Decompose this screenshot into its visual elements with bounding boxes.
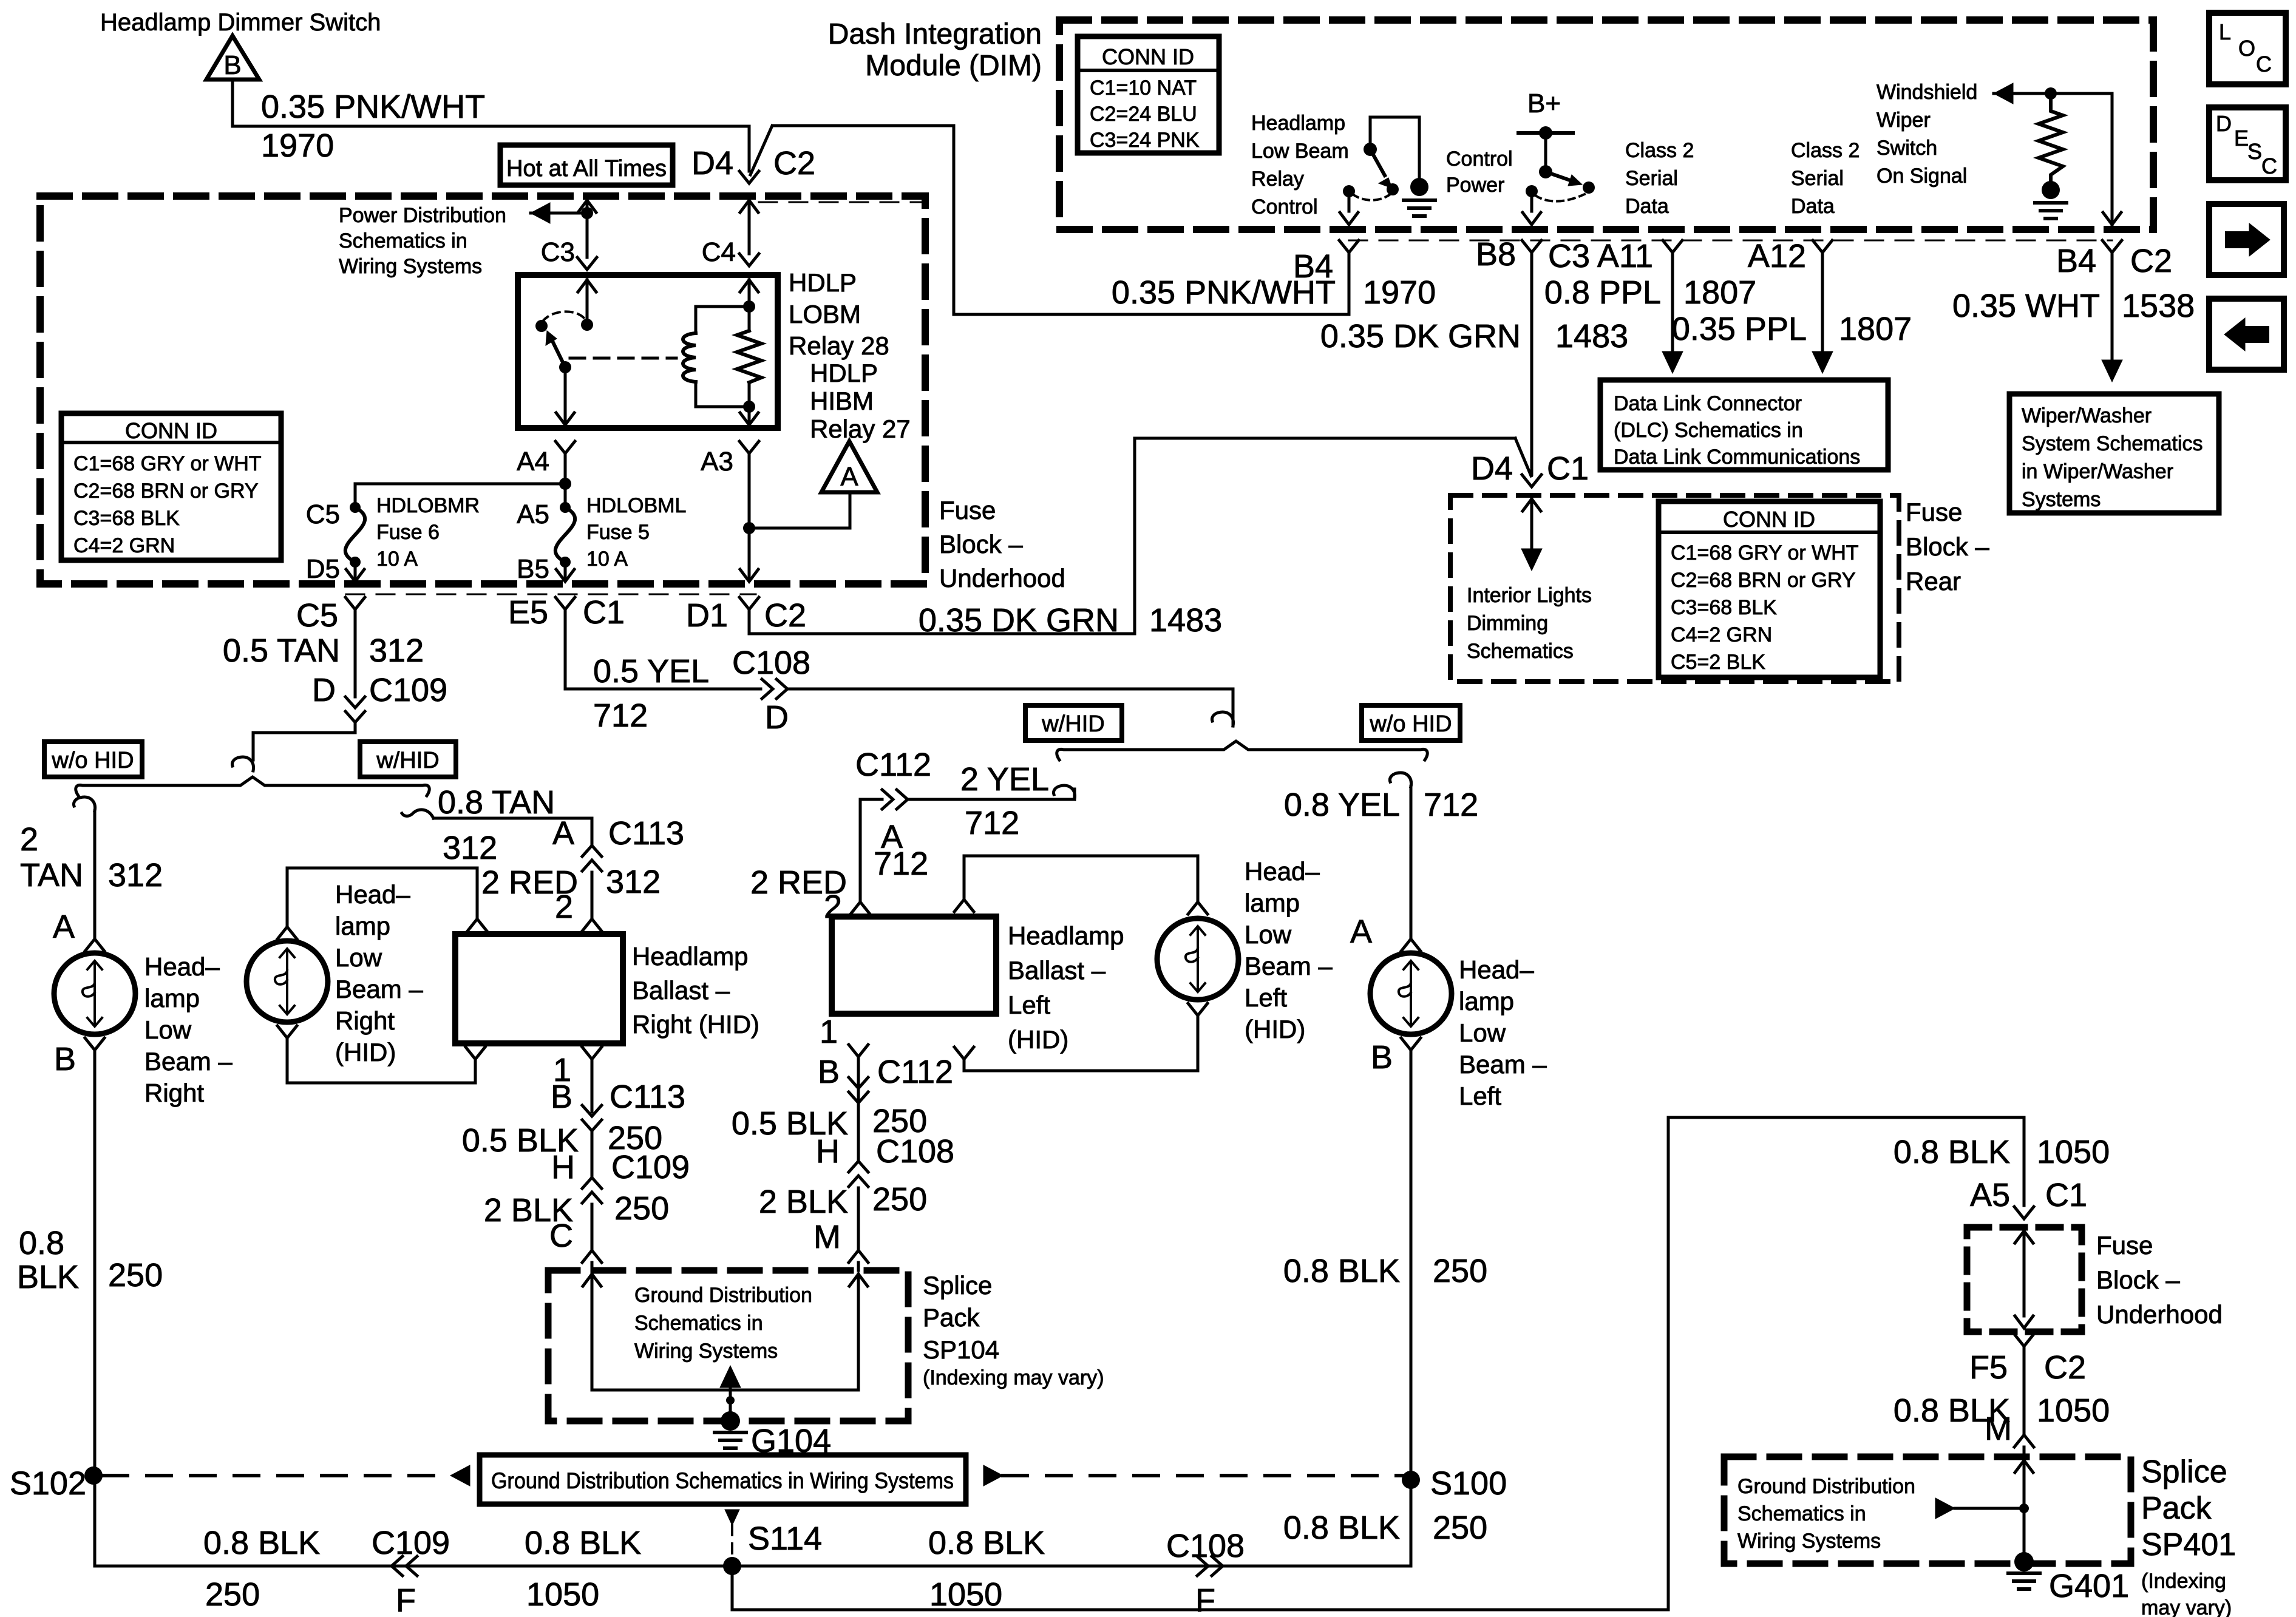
pin arrow B5 to fuse block edge [556,569,574,581]
svg-text:E: E [2234,126,2249,151]
svg-text:F5: F5 [1969,1349,2008,1386]
svg-text:CONN ID: CONN ID [1102,44,1194,69]
connector fork A11 [1663,240,1682,253]
dot right contact relay control [1387,183,1399,195]
svg-text:C108: C108 [732,645,810,681]
DIM control power switch arm [1546,172,1574,181]
wire top to right [773,124,954,127]
wire D1 down [748,609,751,634]
svg-text:C109: C109 [372,1525,450,1561]
wire 0.8 BLK top run [1668,1116,2024,1119]
wire 0.8 PPL [1671,253,1674,364]
wire HID left lamp top loop [964,855,1198,858]
svg-text:C1: C1 [583,594,625,631]
svg-text:0.35 DK GRN: 0.35 DK GRN [1320,318,1521,354]
wire A5 drop [564,484,567,503]
thin dashed connector row top [759,202,925,203]
pin fork into right ballast pin2 [582,919,602,931]
wire HID right lamp bottom loop [287,1082,475,1085]
wire C3 feed [586,200,589,257]
connector chevron C108 up [849,1161,868,1172]
box w/HID left [360,742,456,777]
svg-text:1538: 1538 [2122,288,2195,324]
connector fork A12 [1813,240,1832,253]
ground DIM internal [1404,198,1435,202]
pin fork ballast right top-left [467,919,487,931]
connector fork A4 [555,441,575,453]
wire riser to fuse block underhood [1667,1117,1670,1610]
box CONN ID rear [1659,501,1880,677]
pin arrow into underhood box [2015,1231,2033,1243]
squiggle resume right split feed [1212,712,1233,726]
relay switch fixed contact right [581,319,593,331]
pin fork into left ballast pin2 [851,902,870,914]
svg-text:B5: B5 [517,554,549,584]
svg-text:w/o HID: w/o HID [1369,711,1452,737]
svg-text:C1: C1 [2045,1177,2087,1213]
wire 0.5 BLK [591,1131,594,1178]
wire 2 BLK left [857,1188,860,1249]
svg-text:Ground Distribution Schematics: Ground Distribution Schematics in Wiring… [491,1468,954,1493]
svg-text:A5: A5 [517,500,549,529]
pin arrow out of underhood box [2015,1316,2033,1328]
pin arrow M inside SP401 [2015,1460,2033,1473]
box Ground Distribution Schematics in Wiring Systems [480,1455,966,1504]
connector fork C4 [739,254,759,266]
connector slash D4/C1 rear [1515,438,1531,476]
connector fork C5 (fuse block bottom) [345,597,365,609]
ground wiper internal [2035,201,2067,205]
arrow windshield wiper [1994,83,2013,104]
connector chevron C113 [582,846,602,856]
pin fork into left lamp A [1401,939,1421,951]
svg-text:L: L [2219,19,2231,44]
svg-text:312: 312 [369,632,424,669]
svg-text:C2: C2 [2130,243,2172,279]
splice/ground dot G401 [2014,1552,2034,1571]
relay switch pivot [559,361,571,373]
svg-text:1807: 1807 [1683,274,1756,311]
svg-text:B: B [223,50,241,80]
svg-text:C2: C2 [2044,1349,2086,1386]
wire wiper signal top [1994,92,2112,95]
svg-text:250: 250 [1433,1510,1487,1546]
dashed box Dash Integration Module [1059,20,2153,229]
svg-text:H: H [816,1133,840,1170]
svg-text:G401: G401 [2049,1568,2129,1604]
box Data Link Connector [1600,380,1888,470]
triangle flag B (dimmer switch) [206,36,259,80]
svg-text:D: D [765,699,789,736]
svg-text:B+: B+ [1527,89,1561,118]
stem HIBM flag [849,492,852,528]
box right arrow [2209,204,2284,275]
pin arrow into fuse block rear [1523,499,1541,511]
relay coil junction bottom [743,401,755,413]
svg-text:w/HID: w/HID [376,748,439,773]
stub to G104 [729,1390,732,1418]
svg-text:1050: 1050 [929,1576,1002,1613]
wire HID left lamp bottom loop [964,1070,1198,1073]
svg-text:250: 250 [205,1576,260,1613]
svg-text:C5: C5 [296,597,338,634]
connector chevron C109 bus [392,1556,402,1576]
svg-text:C108: C108 [1166,1528,1245,1564]
svg-text:D4: D4 [691,145,733,181]
wire 2 YEL run [908,789,1075,799]
svg-text:B: B [818,1054,840,1090]
connector fork ballast left pin1 [849,1045,868,1057]
pin arrow D1 to fuse block edge [740,569,758,581]
connector fork A5/C1 [2014,1207,2034,1219]
svg-text:C5: C5 [306,500,340,529]
wire 0.5 YEL down [564,609,567,689]
svg-text:BLK: BLK [17,1259,79,1295]
squiggle resume 0.8 YEL branch [1390,773,1411,787]
connector fork D4 [739,171,759,183]
wire ground bus 0.8 BLK [95,1565,1411,1568]
svg-text:1: 1 [820,1014,838,1050]
splice S102 [84,1466,103,1485]
dot DIM internal ground [1410,178,1428,196]
split brace left [76,777,429,796]
connector chevron C113 bottom [582,1120,602,1131]
svg-text:1050: 1050 [2037,1392,2110,1429]
relay resistor [737,331,761,382]
fuse HDLOBMR Fuse 6 [350,502,361,513]
triangle flag A (HDLP HIBM Relay 27) [821,441,877,492]
svg-text:1970: 1970 [1363,274,1436,311]
wire 0.5 YEL to split [787,688,1233,691]
svg-text:A3: A3 [701,447,733,476]
splice bus SP104 [592,1389,858,1392]
svg-text:250: 250 [614,1190,669,1227]
relay pin arrow C4 inside [740,280,758,292]
wire C112 to ballast corner [860,798,882,801]
arrow interior lights dimming [1521,549,1542,571]
connector fork ballast left bottom-right [954,1047,974,1059]
svg-text:C108: C108 [876,1133,954,1170]
wire 0.8 TAN run [433,817,592,820]
wire ground bus to SP401 [732,1609,1668,1612]
svg-text:0.8 BLK: 0.8 BLK [1283,1253,1400,1289]
pin fork ballast left top-right [954,900,974,912]
svg-text:H: H [551,1149,575,1185]
svg-text:B8: B8 [1476,236,1516,273]
wire C109 down [354,722,357,733]
wire 0.8 BLK A5 drop [2023,1117,2026,1205]
lamp Headlamp Low Beam - Left (HID) [1157,918,1238,1000]
pin fork into right lamp A [85,939,104,951]
svg-text:0.8 BLK: 0.8 BLK [525,1525,641,1561]
connector chevron C112 [897,790,908,809]
svg-text:1483: 1483 [1555,318,1628,354]
stub SP401 [1955,1507,2024,1510]
arrow banner to S114 [725,1510,739,1525]
arrow other grounds SP401 [1935,1498,1955,1519]
wire 0.8 BLK F5 [2023,1346,2026,1434]
wire into D4 [748,126,751,171]
svg-text:C3: C3 [1548,238,1590,274]
arrow into DLC box (A12) [1812,351,1833,373]
svg-text:C1=10 NATC2=24 BLUC3=24 PNK: C1=10 NATC2=24 BLUC3=24 PNK [1090,76,1200,152]
svg-text:A12: A12 [1748,238,1806,274]
splice S114 [723,1557,741,1575]
svg-text:1807: 1807 [1839,311,1912,347]
svg-text:250: 250 [872,1181,927,1218]
svg-text:E5: E5 [508,594,548,631]
svg-text:0.35 WHT: 0.35 WHT [1952,288,2100,324]
wire 0.5 YEL right [565,688,761,691]
splice/ground dot G104 [721,1411,740,1431]
wire DK GRN top run [1135,437,1515,440]
box LOC [2209,13,2286,84]
relay mechanical link dashed [570,357,676,360]
junction dot C3 feed [581,207,593,219]
svg-text:712: 712 [965,805,1019,841]
connector fork right lamp B [85,1038,104,1050]
wire left ballast B down [857,1057,860,1103]
arrowhead control power arm [1568,175,1582,186]
dot B+ [1539,126,1552,140]
wire fuse6 drop [354,484,357,503]
relay switch travel arc dashed [543,311,585,321]
dot left contact control power (B8) [1526,185,1538,197]
svg-text:A4: A4 [517,447,549,476]
lamp Headlamp Low Beam - Right (HID) [246,941,328,1022]
arrow up SP104 (other grounds) [720,1366,741,1388]
wire DIM relay control feed [1369,117,1372,149]
wire DK GRN riser [1133,438,1136,634]
dot left contact relay control (B4) [1343,185,1355,197]
box w/o HID right [1362,705,1460,741]
pin fork into HID left lamp [1188,902,1207,914]
box Headlamp Ballast - Left (HID) [832,917,996,1014]
svg-text:0.8 YEL: 0.8 YEL [1284,787,1400,823]
wire A3 down [748,453,751,580]
dot relay control arm pivot [1364,143,1377,156]
box CONN ID DIM [1078,36,1219,153]
pin fork into HID right lamp [277,927,297,939]
arrowhead switch arm [1379,178,1392,188]
svg-text:S100: S100 [1430,1465,1507,1502]
svg-text:0.5 YEL: 0.5 YEL [593,653,709,690]
wire B+ bar [1518,131,1573,135]
ground G104 [715,1431,746,1434]
svg-text:Headlamp Dimmer Switch: Headlamp Dimmer Switch [100,9,381,36]
relay pin arrow A3 inside [740,413,758,425]
svg-text:2: 2 [20,821,38,858]
junction dot wiper resistor [2045,87,2057,100]
wire 0.35 DK GRN B8 down [1530,253,1533,475]
box Headlamp Ballast - Right (HID) [455,934,623,1043]
svg-text:(Indexing may vary): (Indexing may vary) [923,1366,1104,1389]
wire A4 down [564,453,567,484]
relay coil junction top [743,300,755,313]
junction dot A4/A5 [559,478,571,490]
svg-text:F: F [1195,1582,1215,1617]
box CONN ID underhood [61,413,281,560]
wire power dist stub [531,212,587,215]
svg-text:S: S [2247,139,2262,164]
svg-text:M: M [1985,1411,2012,1447]
wire 0.5 BLK left [857,1103,860,1161]
svg-text:0.35 PNK/WHT: 0.35 PNK/WHT [1112,274,1336,311]
svg-text:F: F [396,1582,416,1617]
relay coil loop bottom [696,405,749,408]
wire 2 RED down [591,872,594,918]
stub up SP104 [729,1386,732,1390]
svg-text:D1: D1 [686,597,728,634]
dashed stub to S114 [731,1525,733,1558]
svg-text:Hot at All Times: Hot at All Times [506,156,667,181]
dashed box Fuse Block - Rear / Interior Lights [1450,495,1899,682]
wire 0.35 DK GRN bottom run [749,632,1135,636]
lamp Headlamp Low Beam - Right [54,953,135,1034]
wire left ballast 2nd pin up [963,856,966,898]
svg-text:w/HID: w/HID [1041,711,1104,737]
pin arrow B4 out of DIM [1340,212,1358,225]
wire B+ to arm [1544,133,1547,172]
relay pin arrow C3 inside [578,280,596,292]
connector fork ballast right bottom-left [466,1047,485,1059]
squiggle resume 0.8 TAN branch [402,810,433,818]
wire ballast right top-left pin [476,868,479,918]
svg-text:B: B [54,1041,76,1077]
svg-text:250: 250 [108,1257,163,1293]
junction dot A3/HIBM [743,522,755,534]
wire to fuse 6 [355,483,565,486]
relay switch output wire [564,367,567,423]
arrowhead banner left [450,1465,470,1486]
dot control power arm pivot [1539,165,1552,178]
connector chevron C108 [776,679,787,699]
connector chevron C108 bus [1212,1556,1223,1576]
dashed travel arc relay control [1353,194,1390,200]
svg-text:B: B [1371,1039,1393,1076]
svg-text:C109: C109 [369,672,447,708]
svg-text:1483: 1483 [1149,602,1222,639]
wire 2 BLK [591,1204,594,1249]
svg-text:C: C [2256,52,2272,76]
dashed travel arc control power [1535,194,1584,202]
wire 0.8 BLK right lamp ground [93,1050,97,1566]
box DESC [2209,107,2286,180]
wire 2 TAN down [93,811,97,938]
svg-text:0.8: 0.8 [19,1225,64,1261]
pin fork M into SP401 [2014,1435,2034,1447]
svg-text:D5: D5 [306,554,340,584]
connector fork HID right lamp [277,1026,297,1038]
connector fork HID left lamp [1188,1003,1207,1015]
svg-text:A: A [53,909,75,945]
pin arrow C inside SP104 [583,1274,601,1286]
svg-text:1050: 1050 [2037,1134,2110,1170]
box w/HID right [1025,705,1122,741]
svg-text:2: 2 [555,889,573,925]
svg-text:312: 312 [606,864,661,900]
pin arrow M inside SP104 [849,1274,868,1286]
wire B4 riser [1348,253,1351,314]
arrow into DLC box (A11) [1662,351,1683,373]
dashed box Fuse Block - Underhood [40,196,925,584]
relay coil loop top [696,305,749,308]
svg-text:C112: C112 [877,1054,953,1090]
connector chevron C109 (TAN) [345,711,365,722]
box Wiper/Washer reference [2009,394,2219,513]
pin fork M into SP104 [849,1250,868,1263]
wire S114 down [731,1566,734,1610]
svg-text:C109: C109 [611,1149,690,1185]
svg-text:712: 712 [593,697,648,734]
squiggle resume 2 YEL branch [1053,785,1075,799]
svg-text:712: 712 [874,846,928,882]
connector fork B8 [1522,240,1541,253]
svg-text:A5: A5 [1970,1177,2010,1213]
svg-text:0.8 PPL: 0.8 PPL [1544,274,1661,311]
junction dot SP401 [2019,1503,2029,1513]
DIM relay control switch arm [1370,149,1385,175]
svg-text:2 BLK: 2 BLK [759,1184,848,1220]
svg-text:C2: C2 [773,145,815,181]
svg-text:C4: C4 [702,237,736,267]
connector fork left lamp B [1401,1038,1421,1050]
connector slash D4/C2 [750,126,772,175]
relay coil [683,333,696,382]
dot right contact control power [1583,181,1595,194]
wire B8 stub [1530,191,1533,211]
connector chevron C109 up [582,1178,602,1188]
wire right ballast B down [591,1059,594,1112]
wire down right of Hot box [953,126,956,314]
svg-text:0.8 BLK: 0.8 BLK [1283,1510,1400,1546]
svg-text:A: A [840,462,858,492]
box Hot at All Times [500,145,673,185]
connector fork A3 [739,441,759,453]
wire HID right lamp top loop [287,867,477,870]
svg-text:A11: A11 [1597,238,1653,274]
splice S100 [1402,1471,1420,1489]
relay switch fixed contact left [535,320,548,332]
thin dashed connector row bottom [346,594,756,595]
wire 0.35 PNK/WHT horizontal [233,125,749,128]
svg-text:A: A [552,815,574,852]
dashed box Fuse Block - Underhood (right) [1967,1227,2082,1332]
arrowhead banner right [983,1465,1003,1486]
connector fork C3 [577,257,597,269]
ground G401 [2008,1571,2040,1575]
svg-text:C113: C113 [608,815,684,852]
svg-text:B4: B4 [2056,243,2096,279]
dashed link banner to S100 [1003,1474,1411,1477]
wire C4 feed [748,200,751,254]
lamp Headlamp Low Beam - Left [1370,953,1452,1034]
svg-text:C3: C3 [541,237,575,267]
svg-text:TAN: TAN [20,857,83,893]
relay switch arm [552,341,565,367]
svg-text:0.35 PNK/WHT: 0.35 PNK/WHT [261,89,485,125]
pin arrow D5 to fuse block edge [346,569,364,581]
arrow to power distribution [531,203,550,223]
connector fork D1 [739,597,759,609]
svg-text:250: 250 [1433,1253,1487,1289]
svg-text:712: 712 [1424,787,1478,823]
svg-text:0.35 PPL: 0.35 PPL [1672,311,1807,347]
wire split feed left jog [253,731,355,734]
relay pin arrow A4 inside [556,413,574,425]
connector fork F5/C2 [2014,1334,2034,1346]
svg-text:C112: C112 [855,747,931,783]
